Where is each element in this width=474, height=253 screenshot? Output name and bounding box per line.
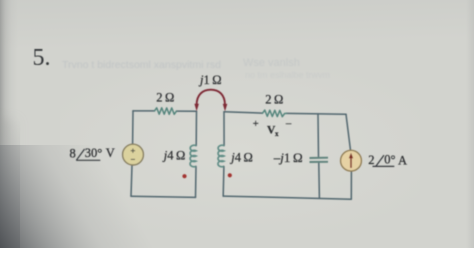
svg-text:j4 Ω: j4 Ω [162,149,186,163]
svg-text:2: 2 [368,153,374,167]
svg-text:30°: 30° [85,146,103,160]
svg-text:Wse vanlsh: Wse vanlsh [243,57,300,69]
svg-text:no tm eslhalbe trwvm: no tm eslhalbe trwvm [245,70,330,80]
svg-text:A: A [398,153,407,167]
svg-text:2 Ω: 2 Ω [265,92,283,106]
svg-text:j1 Ω: j1 Ω [198,73,222,87]
svg-text:0°: 0° [384,153,395,167]
svg-text:Trvno t bidrectsoml xanspvitmi: Trvno t bidrectsoml xanspvitmi rsd [62,59,221,71]
svg-text:8: 8 [70,146,76,160]
svg-text:j4 Ω: j4 Ω [229,151,253,165]
svg-text:+: + [253,119,259,130]
svg-text:5.: 5. [33,45,51,71]
svg-text:2 Ω: 2 Ω [156,90,174,104]
svg-text:–j1 Ω: –j1 Ω [273,150,303,165]
svg-text:V: V [106,146,115,160]
svg-text:–: – [285,119,292,130]
